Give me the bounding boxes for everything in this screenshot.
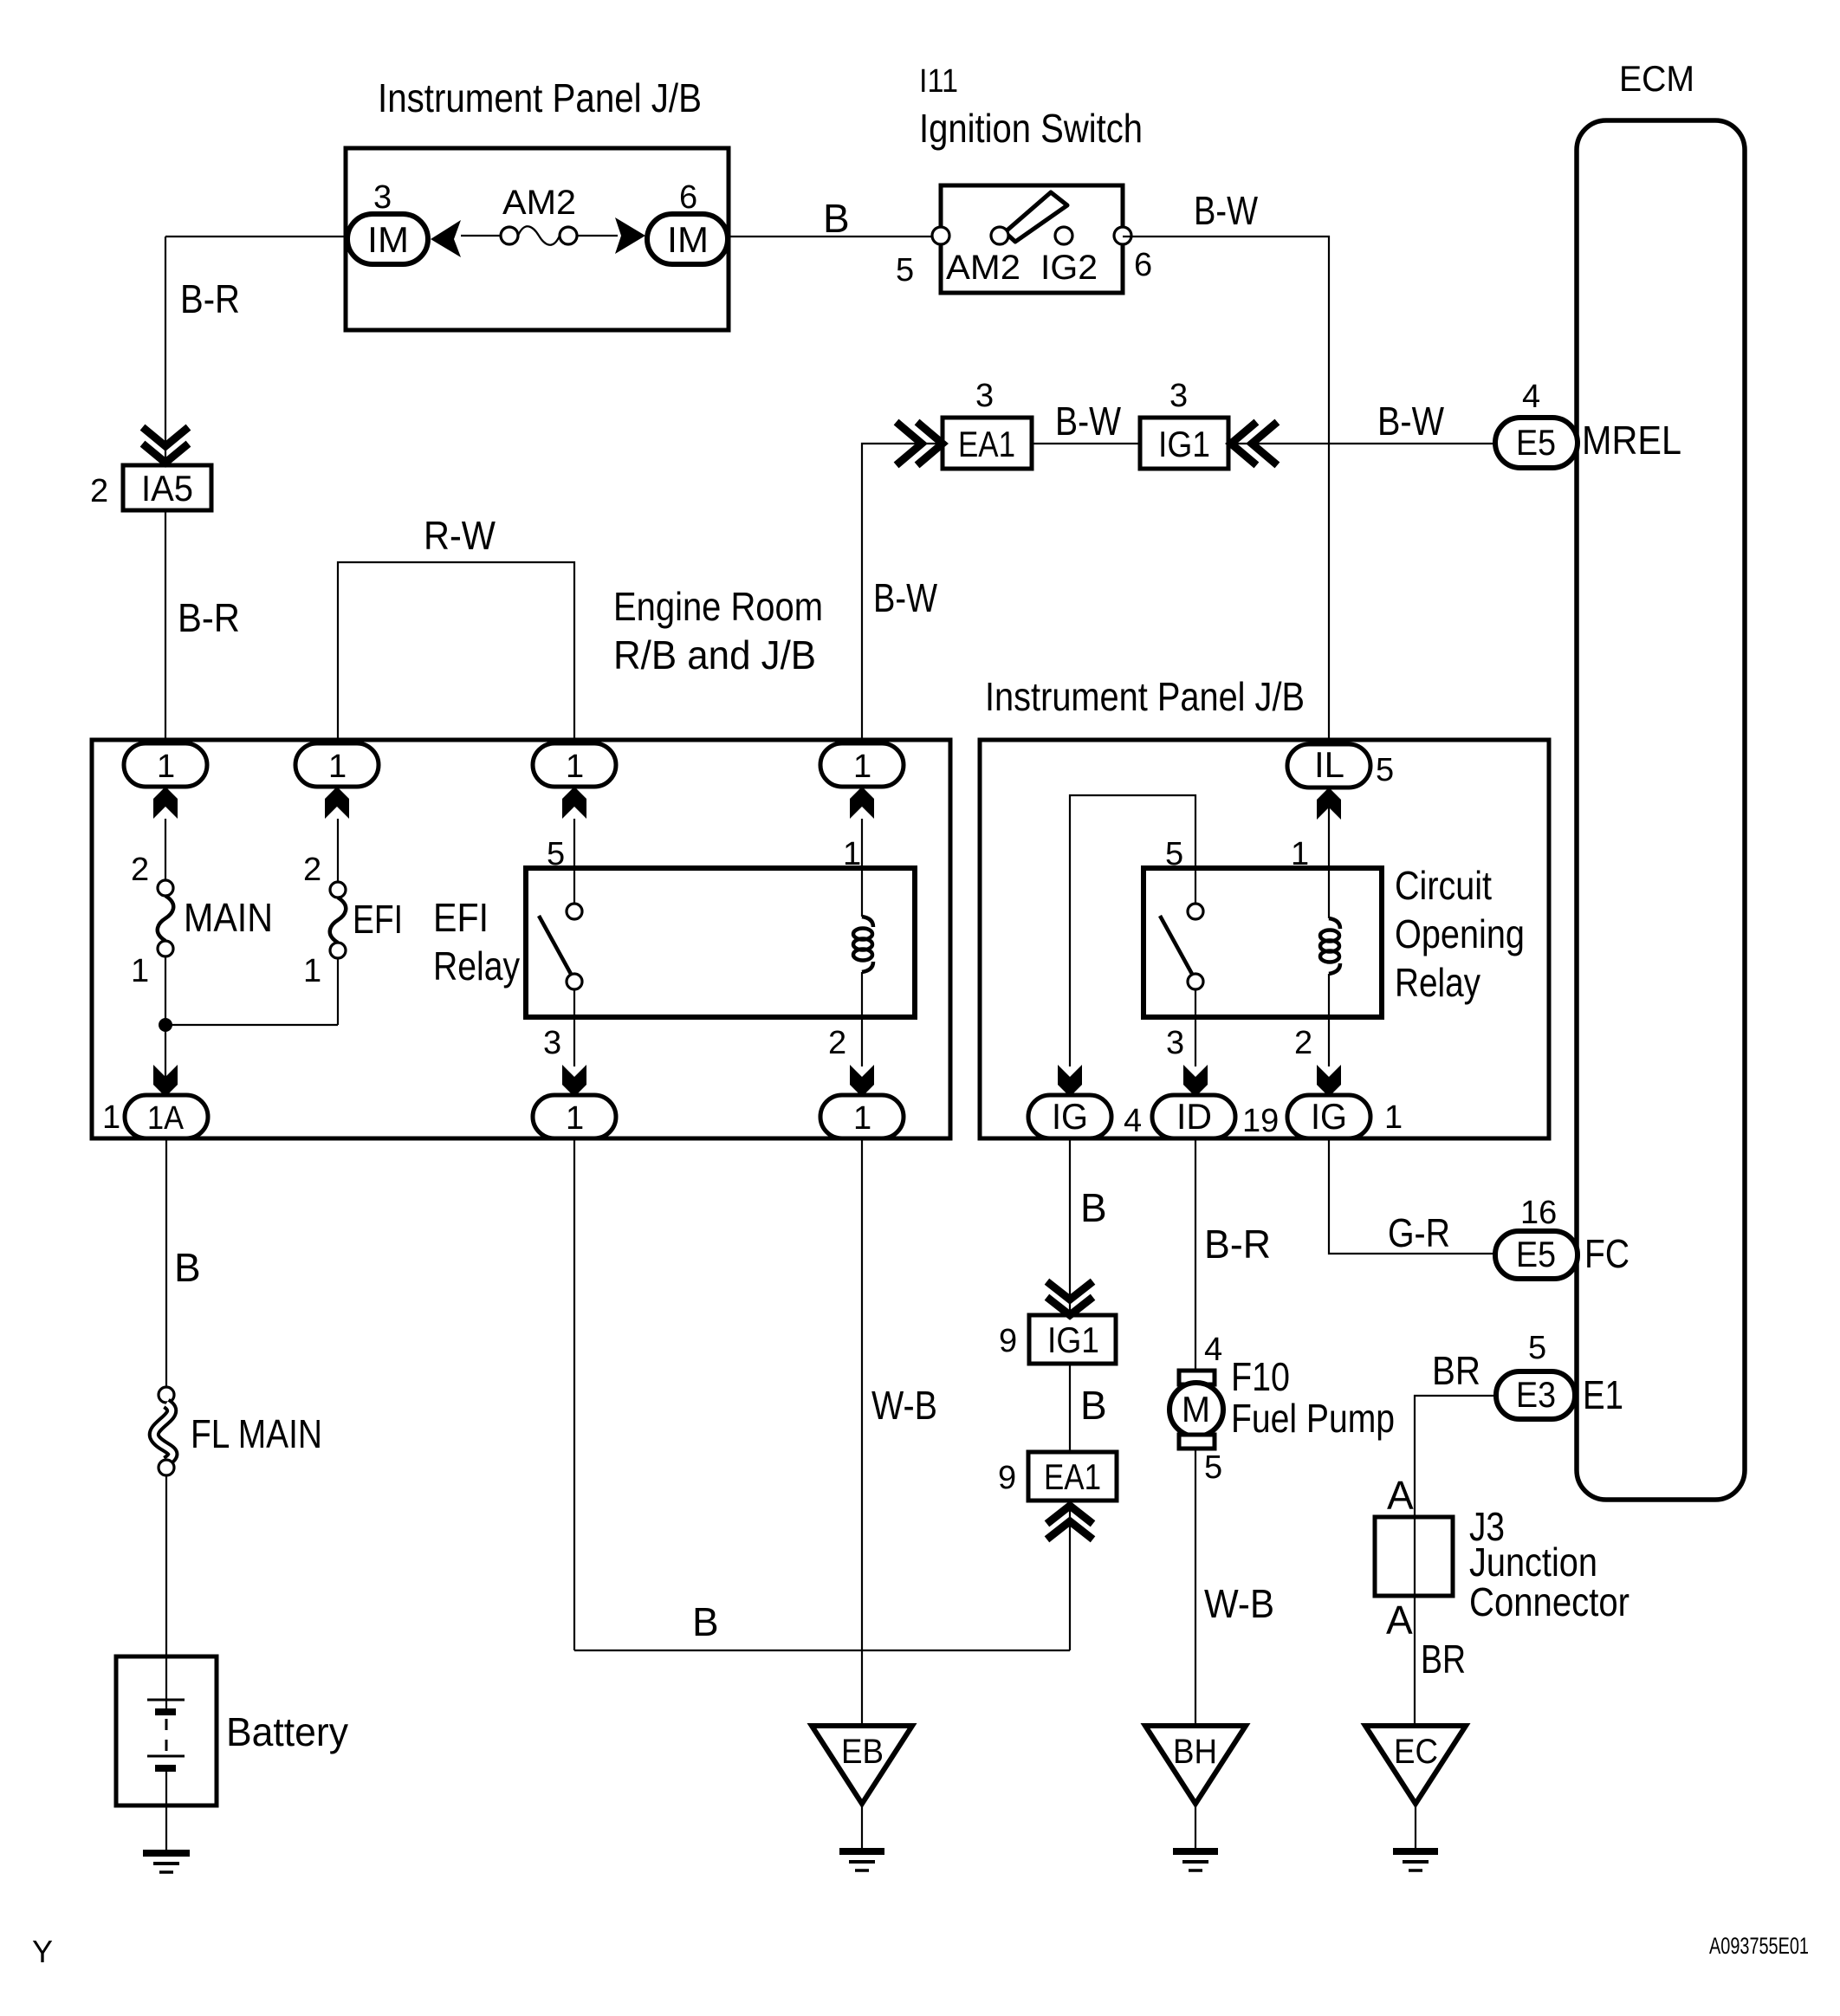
- ignition switch terminal 6: [1114, 227, 1131, 244]
- wire FL MAIN to battery: [165, 1475, 167, 1656]
- junction connector J3 box: [1375, 1517, 1453, 1596]
- svg-text:1: 1: [328, 749, 347, 785]
- wire B from IG(4) down to chevrons: [1069, 1138, 1071, 1313]
- wire B bottom horizontal run: [574, 1650, 1070, 1651]
- fuse EFI: [330, 882, 346, 898]
- wire into relay switch: [573, 819, 575, 904]
- connector IM pin 3: [347, 214, 428, 264]
- wire coil column (EFI relay): [861, 819, 863, 917]
- arrow down into oval (col 4 bottom): [850, 1065, 874, 1097]
- svg-text:B: B: [692, 1599, 719, 1644]
- svg-text:IG1: IG1: [1047, 1319, 1099, 1360]
- svg-text:E1: E1: [1583, 1372, 1623, 1417]
- wire B-R vertical to IA5: [165, 237, 166, 465]
- svg-text:2: 2: [1294, 1025, 1312, 1061]
- motor F10 Fuel Pump: [1179, 1371, 1215, 1384]
- svg-text:2: 2: [828, 1025, 846, 1061]
- svg-text:B-W: B-W: [1194, 188, 1258, 233]
- svg-text:B: B: [174, 1245, 201, 1290]
- svg-text:FC: FC: [1584, 1231, 1629, 1276]
- svg-text:5: 5: [1165, 836, 1183, 872]
- wire battery to ground: [165, 1805, 167, 1851]
- ground symbol (battery): [143, 1850, 190, 1857]
- ground triangle EC: [1365, 1726, 1466, 1804]
- wire W-B from coil oval down to EB ground: [861, 1138, 863, 1726]
- relay switch contact bottom: [567, 974, 582, 989]
- wire EFI fuse to junction row: [337, 958, 339, 1025]
- svg-text:1: 1: [1384, 1099, 1403, 1136]
- svg-text:Connector: Connector: [1469, 1579, 1629, 1624]
- svg-text:E5: E5: [1516, 1234, 1556, 1274]
- battery internal wire bottom: [165, 1768, 167, 1805]
- wire W-B from fuel pump to BH ground: [1195, 1449, 1196, 1726]
- ground symbol (BH): [1173, 1848, 1218, 1855]
- ignition switch terminal IG2: [1055, 227, 1072, 244]
- battery box: [116, 1656, 217, 1805]
- wire R-W loop: [338, 562, 574, 745]
- svg-text:Opening: Opening: [1395, 911, 1525, 956]
- svg-text:IM: IM: [367, 219, 409, 260]
- relay EFI box: [526, 868, 915, 1017]
- arrow down into IG oval (left): [1058, 1065, 1082, 1097]
- wire G-R from IG(1) to ECM FC: [1329, 1138, 1495, 1254]
- ignition switch terminal 5: [932, 227, 949, 244]
- svg-text:B-R: B-R: [1204, 1222, 1271, 1267]
- svg-text:Junction: Junction: [1469, 1540, 1597, 1585]
- relay switch blade: [539, 916, 572, 976]
- svg-text:B-R: B-R: [180, 276, 240, 321]
- battery internal wire top: [165, 1656, 167, 1710]
- svg-text:A: A: [1386, 1598, 1413, 1643]
- svg-text:B-W: B-W: [1055, 399, 1121, 444]
- svg-text:W-B: W-B: [871, 1383, 937, 1428]
- ground symbol (EB): [839, 1848, 884, 1855]
- svg-text:2: 2: [303, 852, 321, 888]
- ECM body rounded box: [1577, 120, 1745, 1500]
- svg-text:Instrument Panel J/B: Instrument Panel J/B: [985, 674, 1305, 719]
- svg-text:1: 1: [843, 836, 861, 872]
- svg-text:1: 1: [566, 749, 584, 785]
- svg-text:R-W: R-W: [424, 513, 496, 558]
- svg-text:1: 1: [157, 749, 175, 785]
- svg-text:Y: Y: [32, 1934, 53, 1969]
- arrow down into 1A oval: [153, 1065, 178, 1097]
- svg-text:B-R: B-R: [178, 595, 240, 640]
- svg-text:EC: EC: [1394, 1733, 1438, 1771]
- junction connector EA1 (row): [943, 418, 1032, 469]
- connector oval 1A (bottom): [125, 1095, 208, 1138]
- svg-text:1: 1: [853, 1100, 871, 1137]
- svg-text:16: 16: [1520, 1195, 1557, 1231]
- wire switch to box bottom: [573, 989, 575, 1066]
- svg-text:F10: F10: [1231, 1354, 1290, 1399]
- svg-text:A093755E01: A093755E01: [1709, 1933, 1809, 1959]
- svg-text:B-W: B-W: [1377, 399, 1444, 444]
- wire B-R from IA5 down to engine room J/B: [165, 510, 166, 745]
- svg-text:4: 4: [1522, 379, 1540, 415]
- connector chevrons << after IG1: [1231, 425, 1254, 463]
- arrow down into oval (col 3 bottom): [562, 1065, 586, 1097]
- wire junction horizontal: [165, 1024, 338, 1026]
- svg-text:9: 9: [998, 1460, 1016, 1496]
- svg-text:1: 1: [102, 1099, 120, 1136]
- connector oval 1 (col 3 bottom): [533, 1095, 616, 1138]
- connector chevrons >> into EA1: [899, 425, 922, 463]
- arrow up into IL oval: [1317, 788, 1341, 820]
- coil (EFI relay): [862, 917, 873, 927]
- relay switch contact bottom (COR): [1188, 974, 1203, 989]
- connector oval 1 (col 4 bottom): [820, 1095, 904, 1138]
- svg-text:B-W: B-W: [873, 575, 937, 620]
- arrow up into oval 1: [153, 787, 178, 819]
- svg-text:4: 4: [1204, 1332, 1222, 1368]
- svg-text:2: 2: [90, 473, 108, 509]
- svg-text:19: 19: [1242, 1103, 1279, 1139]
- wire B between IG1 and EA1: [1069, 1364, 1071, 1452]
- wire BH to ground: [1195, 1804, 1196, 1851]
- connector chevrons down into IG1: [1050, 1284, 1090, 1300]
- svg-text:IL: IL: [1314, 744, 1344, 785]
- svg-text:FL MAIN: FL MAIN: [191, 1411, 322, 1456]
- svg-text:Engine Room: Engine Room: [613, 584, 823, 629]
- svg-text:W-B: W-B: [1204, 1581, 1274, 1626]
- wire jumper from relay pin 5 to IG output: [1070, 795, 1195, 1066]
- svg-text:EA1: EA1: [1044, 1456, 1101, 1497]
- svg-text:6: 6: [679, 179, 697, 216]
- svg-text:B: B: [1080, 1383, 1107, 1428]
- wire BR from E3 to J3: [1415, 1396, 1496, 1726]
- connector oval IG (right): [1287, 1095, 1370, 1138]
- ground triangle BH: [1145, 1726, 1246, 1804]
- svg-text:5: 5: [547, 836, 565, 872]
- wire B-W from chevrons to ECM MREL: [1234, 443, 1495, 444]
- relay switch contact top (COR): [1188, 904, 1203, 919]
- svg-text:I11: I11: [919, 63, 958, 100]
- svg-text:5: 5: [1528, 1330, 1546, 1366]
- svg-text:BR: BR: [1421, 1637, 1466, 1682]
- svg-text:Fuel Pump: Fuel Pump: [1231, 1396, 1395, 1441]
- relay box Circuit Opening Relay: [1144, 868, 1382, 1017]
- relay switch contact top: [567, 904, 582, 919]
- wire MREL row: vertical riser from engine box oval to EA1 chevrons: [862, 444, 940, 743]
- ignition switch I11 box: [941, 185, 1123, 293]
- ECM terminal E3 (E1): [1496, 1371, 1575, 1419]
- svg-text:5: 5: [1204, 1449, 1222, 1486]
- arrow left (connector mate): [431, 220, 461, 257]
- svg-text:M: M: [1182, 1389, 1210, 1429]
- svg-text:E3: E3: [1516, 1374, 1556, 1415]
- svg-text:AM2: AM2: [946, 249, 1020, 287]
- junction connector EA1 (column): [1028, 1452, 1117, 1501]
- ground triangle EB: [812, 1726, 912, 1804]
- coil (COR): [1329, 918, 1340, 929]
- connector oval 1 (col 1 top): [124, 743, 207, 787]
- wire col2 oval to fuse EFI: [337, 819, 339, 882]
- battery cell plate long (bottom): [147, 1755, 185, 1758]
- svg-text:MREL: MREL: [1582, 418, 1681, 463]
- svg-text:BH: BH: [1173, 1733, 1217, 1771]
- svg-text:Battery: Battery: [226, 1709, 348, 1754]
- battery cell plate short thick (top): [155, 1708, 176, 1715]
- wire switch to box bottom (COR): [1195, 989, 1196, 1066]
- svg-text:MAIN: MAIN: [184, 895, 273, 940]
- arrow up into oval (col 3): [562, 787, 586, 819]
- arrow up into oval (col 4): [850, 787, 874, 819]
- connector chevrons up below EA1: [1050, 1506, 1090, 1521]
- svg-text:3: 3: [543, 1025, 561, 1061]
- connector oval ID: [1152, 1095, 1235, 1138]
- battery dashed link: [165, 1719, 168, 1752]
- wire IL to relay coil: [1328, 788, 1330, 918]
- svg-text:G-R: G-R: [1388, 1210, 1450, 1255]
- svg-text:1: 1: [566, 1100, 584, 1137]
- wire to fuse AM2: [461, 235, 502, 237]
- svg-text:EB: EB: [841, 1733, 884, 1771]
- relay block box Engine Room R/B and J/B: [92, 740, 950, 1138]
- svg-text:IG1: IG1: [1158, 424, 1210, 464]
- fuse MAIN: [158, 880, 173, 896]
- svg-text:B: B: [1080, 1185, 1107, 1230]
- wire B down from EA1 to bottom run: [1069, 1506, 1071, 1650]
- svg-text:Circuit: Circuit: [1395, 863, 1492, 908]
- wire col1 oval to fuse MAIN: [165, 819, 166, 880]
- arrow right (connector mate): [615, 217, 645, 254]
- arrow up into oval (col 2): [325, 787, 349, 819]
- fuse AM2: [501, 227, 518, 244]
- wire coil to box bottom (COR): [1328, 974, 1330, 1066]
- connector oval IG (left): [1028, 1095, 1111, 1138]
- svg-text:Relay: Relay: [433, 943, 520, 989]
- ECM terminal E5 (FC): [1495, 1231, 1578, 1279]
- svg-text:EFI: EFI: [433, 895, 489, 940]
- svg-text:3: 3: [1166, 1025, 1184, 1061]
- svg-text:IG2: IG2: [1040, 249, 1098, 287]
- svg-text:6: 6: [1134, 247, 1152, 283]
- relay switch blade (COR): [1160, 916, 1193, 976]
- svg-text:EA1: EA1: [958, 424, 1015, 464]
- svg-text:IG: IG: [1311, 1096, 1347, 1137]
- svg-text:ECM: ECM: [1619, 58, 1694, 99]
- connector oval IL: [1287, 744, 1370, 788]
- wire B-R horizontal from node to IM pin 3: [165, 236, 350, 237]
- svg-text:A: A: [1387, 1473, 1414, 1518]
- ignition switch terminal AM2: [991, 227, 1008, 244]
- battery cell plate short thick (bottom): [155, 1765, 176, 1772]
- connector oval 1 (col 2 top): [295, 743, 379, 787]
- svg-text:3: 3: [1169, 378, 1188, 414]
- wire B from IM pin 6 to ignition switch: [728, 236, 941, 237]
- svg-text:3: 3: [975, 378, 994, 414]
- arrow down into ID oval: [1183, 1065, 1208, 1097]
- junction block box Instrument Panel J/B (second): [980, 740, 1549, 1138]
- svg-text:BR: BR: [1432, 1348, 1480, 1393]
- ground symbol (EC): [1393, 1848, 1438, 1855]
- junction connector IG1 (row): [1140, 418, 1228, 469]
- svg-text:R/B and J/B: R/B and J/B: [613, 632, 816, 677]
- svg-text:IG: IG: [1052, 1096, 1088, 1137]
- svg-text:IA5: IA5: [141, 468, 193, 509]
- svg-text:4: 4: [1124, 1103, 1142, 1139]
- junction connector IA5: [123, 465, 211, 510]
- svg-text:1: 1: [303, 953, 321, 989]
- svg-text:EFI: EFI: [353, 897, 403, 942]
- wire B-W from ignition switch to ECM column: [1123, 237, 1329, 745]
- svg-text:AM2: AM2: [502, 184, 576, 222]
- svg-text:3: 3: [373, 179, 392, 216]
- junction connector IG1 (column): [1029, 1315, 1116, 1364]
- wire EC to ground: [1415, 1804, 1416, 1851]
- wire coil to box bottom: [861, 972, 863, 1066]
- wire EB to ground: [861, 1804, 863, 1851]
- svg-text:1: 1: [853, 749, 871, 785]
- connector oval 1 (col 3 top): [533, 743, 616, 787]
- wire B-W between EA1 and IG1: [1032, 443, 1140, 444]
- svg-text:Relay: Relay: [1395, 960, 1480, 1005]
- svg-text:5: 5: [1376, 752, 1394, 788]
- svg-text:Ignition Switch: Ignition Switch: [919, 106, 1143, 151]
- battery cell plate long (top): [147, 1699, 185, 1702]
- arrow down into IG oval (right): [1317, 1065, 1341, 1097]
- connector chevrons down into IA5: [146, 430, 185, 446]
- wire MAIN fuse to junction node: [165, 956, 166, 1095]
- svg-text:Instrument Panel J/B: Instrument Panel J/B: [378, 75, 702, 120]
- svg-text:9: 9: [999, 1323, 1017, 1359]
- connector IM pin 6: [647, 214, 728, 264]
- junction block box Instrument Panel J/B (top): [346, 148, 729, 330]
- fusible link FL MAIN: [159, 1387, 174, 1403]
- connector oval 1 (col 4 top): [820, 743, 904, 787]
- svg-text:5: 5: [896, 252, 914, 288]
- svg-text:B: B: [823, 196, 850, 241]
- svg-text:E5: E5: [1516, 422, 1556, 463]
- svg-text:2: 2: [131, 852, 149, 888]
- svg-text:IM: IM: [667, 219, 709, 260]
- wire from fuse AM2: [577, 235, 618, 237]
- svg-text:1: 1: [131, 953, 149, 989]
- ignition switch key lever: [1005, 192, 1067, 242]
- wire B from 1A oval down to FL MAIN: [165, 1138, 167, 1388]
- wire B-R from ID(19) down to fuel pump: [1195, 1138, 1196, 1371]
- junction node dot: [159, 1018, 172, 1032]
- svg-text:1A: 1A: [147, 1100, 185, 1137]
- ECM terminal E5 (MREL): [1495, 418, 1578, 468]
- svg-text:1: 1: [1291, 836, 1309, 872]
- svg-text:ID: ID: [1176, 1096, 1212, 1137]
- wire from EFI relay output oval down to bottom run: [573, 1138, 575, 1650]
